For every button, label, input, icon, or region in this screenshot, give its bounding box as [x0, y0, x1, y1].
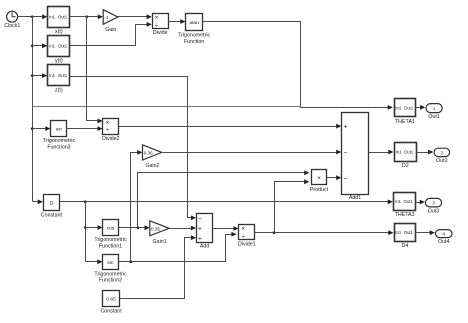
svg-text:Function2: Function2 — [99, 278, 122, 284]
subsystem z(t) — [48, 65, 70, 94]
svg-text:+: + — [198, 235, 202, 242]
wire Product to Add1 minus input — [327, 175, 342, 180]
node clock branch junction — [31, 15, 34, 18]
subsystem x(t) — [48, 7, 70, 35]
svg-text:Gain2: Gain2 — [145, 163, 159, 169]
svg-text:0: 0 — [50, 201, 53, 207]
svg-text:Trigonometric: Trigonometric — [94, 271, 127, 277]
svg-text:THETA1: THETA1 — [395, 119, 415, 125]
wire Add to Divide1 — [213, 226, 239, 231]
trig function sin Trigonometric Function2 — [94, 255, 127, 284]
svg-text:In1: In1 — [396, 150, 402, 155]
wire D4 to Out4 — [416, 230, 435, 235]
svg-text:0.35: 0.35 — [151, 226, 160, 231]
svg-text:÷: ÷ — [241, 233, 245, 240]
svg-text:Function: Function — [184, 39, 204, 45]
adder Add — [197, 214, 213, 250]
svg-text:Constant: Constant — [100, 309, 122, 315]
wire Divide to Trigonometric Function — [169, 19, 186, 24]
node Constant output junction — [84, 200, 87, 203]
svg-text:In1: In1 — [395, 105, 401, 110]
wire Clock1 to x(t) — [18, 14, 48, 19]
wire clock vertical trunk — [32, 17, 34, 202]
wire Divide1 branch up to Product — [275, 179, 310, 232]
divide Divide — [153, 14, 169, 37]
svg-text:Trigonometric: Trigonometric — [43, 138, 76, 144]
svg-text:×: × — [317, 175, 321, 182]
node x(t) output junction — [85, 15, 88, 18]
svg-text:cos: cos — [107, 227, 115, 232]
svg-text:Out1: Out1 — [58, 73, 68, 78]
svg-text:2: 2 — [440, 150, 443, 156]
svg-text:x(t): x(t) — [55, 29, 63, 35]
svg-text:Clock1: Clock1 — [4, 23, 20, 29]
svg-text:×: × — [241, 226, 245, 233]
node branch to cos junction — [84, 226, 87, 229]
divide Divide2 — [102, 119, 120, 143]
svg-text:z(t): z(t) — [55, 87, 63, 93]
wire x(t) to Gain — [70, 14, 104, 19]
svg-text:×: × — [106, 119, 110, 126]
svg-text:Trigonometric: Trigonometric — [94, 237, 127, 243]
node cos output junction — [137, 226, 140, 229]
wire atan to THETA1 — [203, 22, 393, 110]
outport Out3 — [425, 198, 441, 214]
subsystem D4 — [395, 224, 416, 250]
svg-text:-1: -1 — [104, 15, 109, 20]
wire Constant 0.65 to Add plus input — [120, 235, 197, 298]
svg-text:÷: ÷ — [106, 127, 110, 134]
adder Add1 — [342, 113, 369, 202]
gain Gain2 — [143, 145, 162, 169]
svg-text:D2: D2 — [402, 163, 409, 169]
wire z(t) to Add minus input — [70, 77, 197, 221]
svg-text:Gain1: Gain1 — [153, 239, 167, 245]
svg-text:Gain: Gain — [105, 27, 116, 33]
svg-text:In1: In1 — [49, 73, 55, 78]
svg-text:0.36: 0.36 — [144, 150, 153, 155]
node clock to y(t) junction — [31, 44, 34, 47]
wire clock to z(t) — [33, 73, 48, 78]
trig function cos Trigonometric Function1 — [94, 220, 127, 250]
svg-text:Out2: Out2 — [436, 158, 448, 164]
wire clock to Constant — [33, 199, 43, 204]
svg-text:THETA3: THETA3 — [395, 212, 415, 218]
subsystem D2 — [395, 143, 417, 170]
svg-text:In1: In1 — [395, 230, 401, 235]
svg-text:Function1: Function1 — [99, 244, 122, 250]
wire riser to Gain2 input — [131, 150, 143, 262]
node sin2 output junction to Gain2 — [129, 260, 132, 263]
svg-text:3: 3 — [432, 201, 435, 207]
svg-text:Add1: Add1 — [349, 195, 361, 201]
svg-text:Out1: Out1 — [404, 105, 414, 110]
svg-text:Constant: Constant — [41, 212, 63, 218]
wire branch to Trigonometric Function2 — [86, 259, 103, 264]
svg-text:In1: In1 — [395, 199, 401, 204]
wire THETA3 to Out3 — [416, 200, 425, 205]
wire x(t) branch down to Divide2 — [87, 17, 103, 124]
svg-text:÷: ÷ — [155, 22, 159, 29]
svg-text:−: − — [198, 215, 202, 222]
svg-text:Out1: Out1 — [58, 14, 68, 19]
svg-text:1: 1 — [433, 106, 436, 112]
svg-text:×: × — [155, 15, 159, 22]
node clock to sin junction — [31, 127, 34, 130]
svg-text:0.65: 0.65 — [106, 297, 116, 303]
svg-text:4: 4 — [442, 232, 445, 238]
wire clock to y(t) — [33, 43, 48, 48]
wire cos to Gain1 — [119, 225, 150, 230]
wire Gain1 to Add plus input — [170, 226, 197, 231]
node Divide1 output junction — [273, 231, 276, 234]
clock source Clock1 — [4, 11, 20, 29]
svg-text:Out1: Out1 — [58, 44, 68, 49]
outport Out1 — [426, 104, 442, 121]
wire sin2 to Divide1 divisor — [119, 232, 237, 262]
wire Gain to Divide — [118, 14, 152, 19]
gain Gain — [103, 10, 118, 33]
svg-text:Out4: Out4 — [438, 239, 450, 245]
svg-text:atan: atan — [189, 20, 199, 26]
wire Divide1 to D4 — [255, 230, 394, 235]
svg-text:−: − — [343, 150, 347, 157]
svg-text:Divide: Divide — [153, 30, 168, 36]
wire sin to Divide2 — [67, 126, 103, 131]
wire clock long horizontal to atan net — [33, 106, 301, 108]
wire Constant to THETA3 — [60, 199, 393, 204]
svg-text:sin: sin — [56, 127, 62, 133]
product Product — [310, 170, 329, 193]
svg-text:Function3: Function3 — [47, 145, 70, 151]
wire THETA1 to Out1 — [416, 105, 426, 110]
wire clock to Trigonometric Function3 — [33, 126, 51, 131]
svg-text:Divide2: Divide2 — [102, 136, 120, 142]
wire cos branch up to Product — [138, 170, 310, 227]
svg-text:+: + — [343, 124, 347, 131]
svg-text:Trigonometric: Trigonometric — [178, 33, 211, 39]
svg-text:Divide1: Divide1 — [238, 241, 256, 247]
svg-text:y(t): y(t) — [55, 58, 63, 64]
divide Divide1 — [238, 225, 256, 248]
svg-text:Out1: Out1 — [428, 114, 440, 120]
gain Gain1 — [150, 221, 169, 245]
svg-text:+: + — [198, 226, 202, 233]
wire Gain2 to Add1 minus input — [162, 150, 342, 155]
wire Add1 to D2 — [369, 150, 394, 155]
svg-text:Out1: Out1 — [404, 230, 414, 235]
svg-text:In1: In1 — [49, 14, 55, 19]
node clock to z(t) junction — [31, 74, 34, 77]
wire Divide2 to Add1 plus input — [119, 124, 342, 129]
svg-text:Product: Product — [310, 187, 329, 193]
svg-text:Out1: Out1 — [404, 199, 414, 204]
svg-text:sin: sin — [107, 260, 113, 266]
svg-text:Out1: Out1 — [404, 150, 414, 155]
constant Constant value 0.65 — [100, 291, 122, 315]
outport Out2 — [434, 148, 450, 164]
trig function atan — [178, 14, 211, 45]
wire D2 to Out2 — [417, 150, 434, 155]
subsystem THETA1 — [395, 99, 416, 125]
subsystem THETA3 — [394, 193, 416, 219]
constant Constant value 0 — [41, 195, 63, 219]
svg-text:In1: In1 — [49, 44, 55, 49]
svg-text:D4: D4 — [402, 243, 409, 249]
svg-text:−: − — [343, 175, 347, 182]
svg-text:Add: Add — [200, 243, 209, 249]
subsystem y(t) — [48, 36, 70, 65]
wire Constant branch down to cos and sin — [85, 202, 87, 262]
wire y(t) to Divide — [70, 22, 152, 46]
svg-text:Out3: Out3 — [428, 209, 440, 215]
outport Out4 — [436, 230, 453, 246]
trig function sin Trigonometric Function3 — [43, 121, 76, 151]
wire branch to cos — [86, 225, 103, 230]
